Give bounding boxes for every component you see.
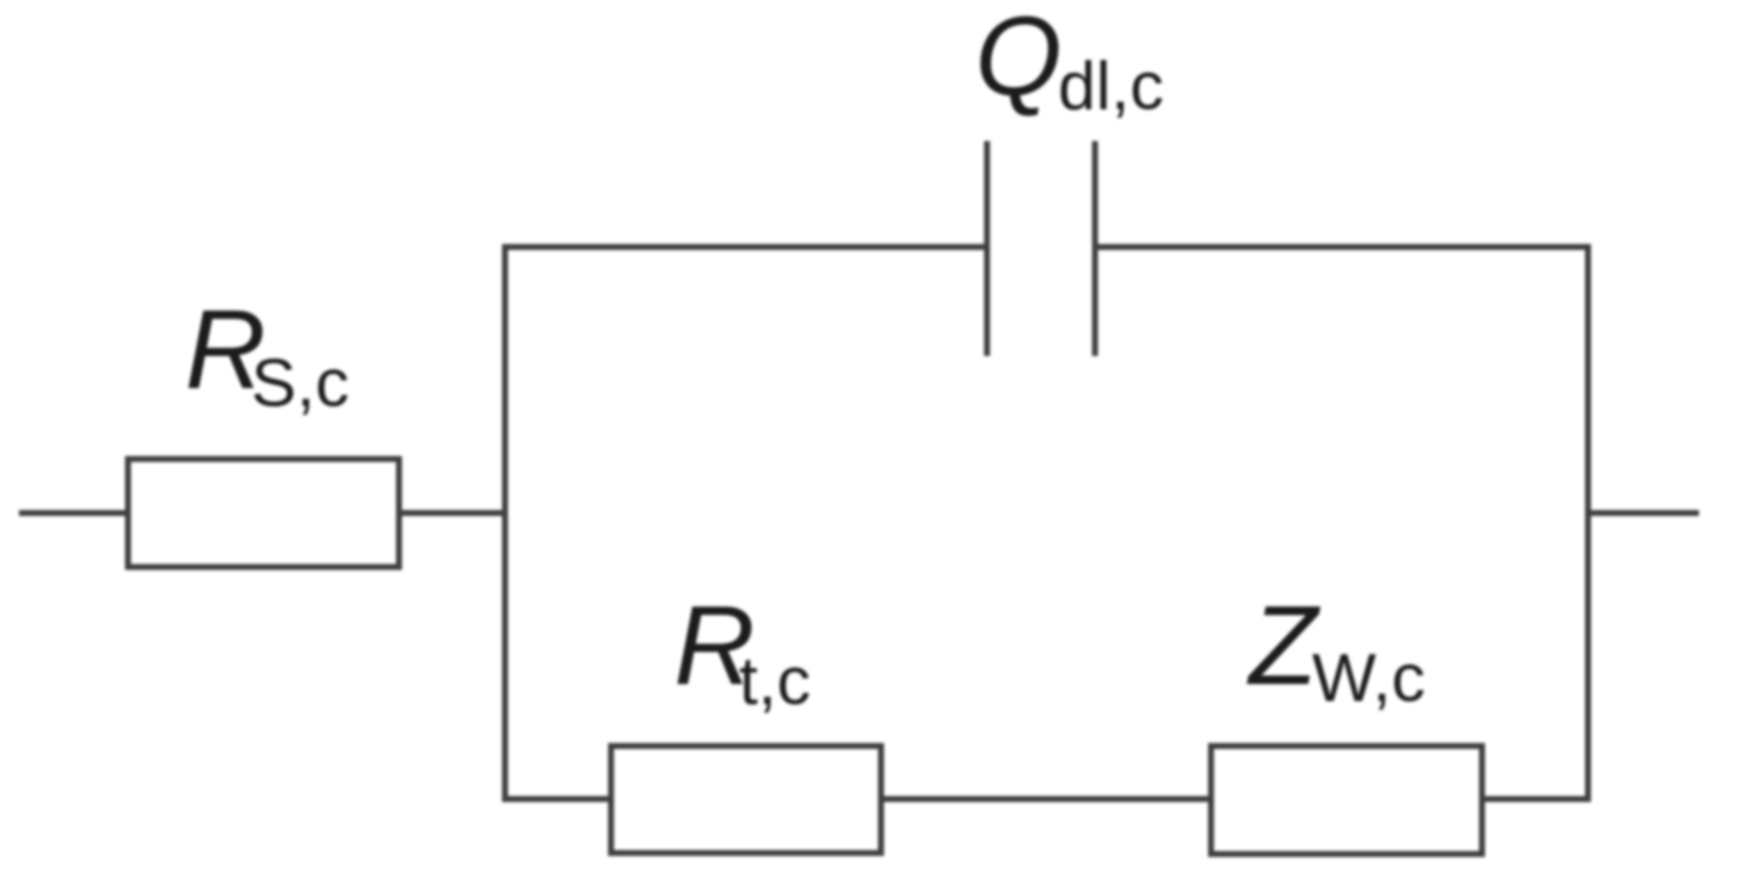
svg-text:S,c: S,c: [251, 345, 349, 421]
node A left junction vertical wire: [502, 244, 508, 802]
wire bottom rail left segment: [502, 796, 614, 802]
svg-text:t,c: t,c: [739, 643, 811, 719]
label Q_dl,c: [975, 0, 1164, 124]
label Z_W,c: [1246, 583, 1425, 716]
Warburg element Z_W,c: [1211, 746, 1482, 854]
wire bottom rail middle segment: [881, 796, 1214, 802]
right terminal wire: [1588, 510, 1699, 516]
capacitor Q_dl,c: [987, 141, 1095, 356]
wire bottom rail right segment: [1482, 796, 1591, 802]
resistor R_S,c: [128, 459, 399, 567]
svg-text:Z: Z: [1246, 583, 1321, 708]
resistor R_t,c: [611, 746, 881, 853]
svg-text:W,c: W,c: [1312, 640, 1425, 716]
wire right vertical: [1585, 244, 1591, 802]
label R_t,c: [674, 583, 811, 719]
left terminal wire: [19, 510, 131, 516]
wire top rail right segment: [1095, 244, 1591, 250]
label R_S,c: [185, 287, 349, 421]
svg-text:dl,c: dl,c: [1058, 48, 1164, 124]
wire top rail left segment: [502, 244, 987, 250]
svg-text:Q: Q: [975, 0, 1062, 119]
wire resistor to node A: [399, 510, 508, 516]
